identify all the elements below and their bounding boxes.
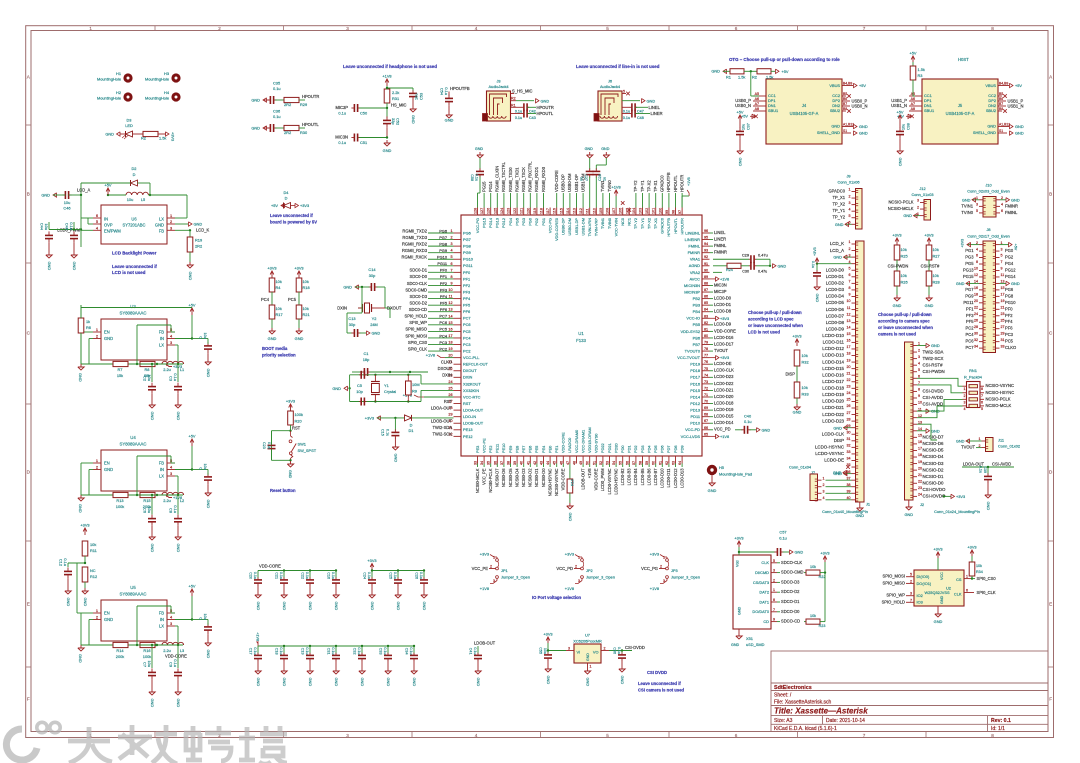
U1 pin 65 VCC-LVDS [702,435,710,437]
svg-text:+1V8: +1V8 [426,353,435,358]
svg-text:3: 3 [170,471,172,476]
svg-text:15: 15 [1001,286,1005,290]
svg-text:R18: R18 [303,285,310,290]
svg-text:PF0: PF0 [463,270,471,275]
svg-text:126: 126 [487,208,491,214]
svg-text:PD10: PD10 [690,421,701,426]
svg-text:67: 67 [704,419,708,423]
svg-text:SPIO_MISO: SPIO_MISO [882,580,905,585]
svg-text:SDC0-CD: SDC0-CD [409,307,427,312]
svg-text:GND: GND [104,617,113,622]
svg-text:80: 80 [704,334,708,338]
svg-text:PG8: PG8 [439,241,447,246]
svg-text:TP-Y1: TP-Y1 [640,218,645,229]
ground under R12 [84,588,86,591]
svg-text:PC5: PC5 [439,327,447,332]
svg-text:VDD-SYS2: VDD-SYS2 [681,329,700,334]
svg-text:0.1u: 0.1u [338,140,346,145]
svg-text:SPI0_CLK: SPI0_CLK [977,590,996,595]
U1 pin 107 VCC-TVIN [615,208,617,216]
svg-text:PF2: PF2 [1005,313,1013,318]
svg-text:22: 22 [974,306,978,310]
svg-text:DAT1: DAT1 [759,599,769,604]
svg-text:2R2: 2R2 [284,130,291,135]
U6 pins right [167,217,175,219]
resistor R24 [713,265,727,267]
U1 pin 61 PD6 [661,456,663,464]
svg-text:61: 61 [658,461,662,465]
svg-text:PD6: PD6 [660,445,665,453]
svg-text:GND: GND [155,223,164,228]
svg-text:SBU2: SBU2 [830,108,840,113]
U1 pin 118 PG1 [543,208,545,216]
svg-text:47: 47 [566,461,570,465]
svg-text:54: 54 [612,461,616,465]
U1 pin 42 PE5 [536,456,538,464]
svg-text:TVIN-VRP: TVIN-VRP [594,218,599,237]
svg-text:10k: 10k [901,273,907,278]
svg-text:B8: B8 [999,107,1003,111]
U1 pin 108 TVIN0 [609,208,611,216]
svg-text:R16: R16 [143,648,150,653]
crystal Y2 [358,307,363,309]
svg-text:H5: H5 [719,465,724,470]
svg-text:KiCad E.D.A. kicad (5.1.6)-1: KiCad E.D.A. kicad (5.1.6)-1 [774,726,837,732]
resistor R30 [275,127,284,129]
svg-text:HPOUTL: HPOUTL [302,122,319,127]
svg-text:LINEINR: LINEINR [685,237,701,242]
svg-text:PG9: PG9 [439,248,447,253]
svg-text:31: 31 [847,437,851,441]
svg-text:7: 7 [1001,260,1003,264]
svg-text:RGMII_TXCTRL: RGMII_TXCTRL [501,161,506,192]
svg-text:PD13: PD13 [690,408,700,413]
svg-text:125: 125 [493,208,497,214]
svg-text:HPOUTFB: HPOUTFB [666,218,671,237]
svg-text:GND: GND [66,598,71,607]
svg-text:24: 24 [847,391,851,395]
svg-text:VCC-TVIN: VCC-TVIN [613,218,618,237]
ground under C53 [412,106,414,109]
svg-text:2: 2 [96,334,98,339]
svg-text:5: 5 [918,368,920,372]
svg-text:100: 100 [658,208,662,214]
svg-text:6: 6 [1001,209,1003,213]
svg-text:Conn_02x03_Odd_Even: Conn_02x03_Odd_Even [967,189,1010,194]
U1 pin 34 VCC-PE [483,456,485,464]
power GND J10 pin2 [1000,199,1006,201]
svg-text:23: 23 [918,486,922,490]
svg-text:+3V3: +3V3 [565,552,574,557]
svg-text:NCSIO-PCLK: NCSIO-PCLK [986,396,1011,401]
capacitor C30 [750,262,752,270]
svg-text:PG5: PG5 [514,218,519,226]
svg-text:LCD0-D13: LCD0-D13 [679,468,684,488]
svg-text:1: 1 [590,665,592,669]
svg-text:J2: J2 [920,502,924,507]
svg-text:C: C [199,617,204,620]
svg-text:117: 117 [546,208,550,214]
svg-text:DXOUT: DXOUT [438,366,453,371]
svg-text:2.2k: 2.2k [392,90,399,95]
U1 pin 35 PE2 [490,456,492,464]
svg-text:SY8089AAAC: SY8089AAAC [120,592,147,597]
svg-text:19: 19 [847,358,851,362]
ground under C38 [899,148,901,151]
svg-text:C: C [199,336,204,339]
svg-text:PG12: PG12 [1005,267,1016,272]
svg-text:C25: C25 [389,572,393,579]
svg-text:R4: R4 [276,285,282,290]
svg-text:29: 29 [1001,331,1005,335]
svg-text:107: 107 [612,208,616,214]
svg-text:C3: C3 [169,376,174,381]
svg-text:+1V8: +1V8 [611,185,620,190]
svg-text:LCDO-HSYNC: LCDO-HSYNC [815,445,844,450]
svg-text:HPOUTR: HPOUTR [302,94,319,99]
svg-text:0.1u: 0.1u [279,647,283,654]
capacitor C19 [309,645,311,647]
svg-text:C50: C50 [360,111,368,116]
svg-text:1: 1 [96,458,98,463]
svg-text:TVIN1: TVIN1 [961,203,973,208]
svg-text:10k: 10k [276,306,282,311]
svg-text:7: 7 [849,280,851,284]
svg-text:HPOUTR: HPOUTR [679,218,684,235]
capacitor U4 input [204,476,212,478]
U5 pins [93,612,101,614]
svg-text:0.1u: 0.1u [338,111,346,116]
U1 pin 17 PC4 [454,337,462,339]
svg-text:USB4105-GF-A: USB4105-GF-A [946,111,975,116]
svg-text:NCSIO-D3: NCSIO-D3 [923,461,945,466]
svg-text:PG15: PG15 [481,181,486,192]
svg-text:23: 23 [847,385,851,389]
svg-text:PC6: PC6 [463,322,471,327]
svg-text:C51: C51 [360,140,367,145]
svg-text:Leave unconnected if headphone: Leave unconnected if headphone is not us… [343,64,437,69]
ground under C41 [477,668,479,671]
svg-text:H3: H3 [164,71,169,76]
svg-text:GND: GND [150,412,155,421]
svg-text:A1,B12: A1,B12 [999,123,1010,127]
svg-text:7: 7 [450,268,452,272]
U1 pin 22 DXOUT [454,370,462,372]
svg-text:GND: GND [585,147,594,151]
svg-text:NC: NC [90,568,96,573]
svg-text:2: 2 [218,26,221,31]
svg-text:3: 3 [849,201,851,205]
svg-text:USB0-DM: USB0-DM [567,218,572,236]
capacitor C42 [523,103,525,111]
svg-text:RGMII_TXD2: RGMII_TXD2 [402,228,427,233]
svg-text:5: 5 [96,219,98,224]
U1 pin 101 TP-X1 [655,208,657,216]
svg-text:PG1: PG1 [541,218,546,226]
svg-text:D: D [285,196,288,201]
svg-text:GND: GND [586,678,591,687]
svg-text:72: 72 [704,386,708,390]
U1 pin 41 PE6 [529,456,531,464]
svg-text:PE1: PE1 [554,446,559,453]
svg-text:GND: GND [150,544,155,553]
power +1V8 top pin107 [615,196,617,208]
svg-text:PC3: PC3 [439,340,447,345]
svg-text:PC5: PC5 [1005,339,1014,344]
svg-text:HPOUTL: HPOUTL [537,111,554,116]
svg-text:LCD0-D12: LCD0-D12 [673,468,678,488]
svg-text:C38: C38 [907,123,911,130]
svg-text:81: 81 [704,327,708,331]
svg-text:C55: C55 [539,647,543,654]
svg-text:VDD-CORE: VDD-CORE [594,468,599,490]
svg-text:HPOUTR: HPOUTR [679,175,684,192]
mounting hole H3 [171,73,180,82]
svg-text:36: 36 [493,461,497,465]
U1 pin 15 PC6 [454,324,462,326]
svg-text:50: 50 [586,461,590,465]
inductor U4 [162,492,184,495]
ground csi pullup 0 [896,295,898,298]
svg-text:93: 93 [704,249,708,253]
svg-text:+3V3: +3V3 [967,545,976,550]
svg-text:94: 94 [704,242,708,246]
svg-text:A7: A7 [911,102,915,106]
svg-text:100k: 100k [295,412,303,417]
svg-text:USB0-DP: USB0-DP [561,218,566,235]
J1 GND pins [844,256,852,258]
resistor R12 [82,567,88,582]
wire Y1 frame [349,375,351,402]
svg-text:1: 1 [96,327,98,332]
capacitor C29 [713,258,749,260]
power +3V3 U7 in [547,637,549,643]
wire U3 IN rail [175,338,192,340]
capacitor C54 [448,92,450,97]
title block [771,651,1048,732]
svg-text:GND: GND [78,654,83,663]
svg-text:GND: GND [194,222,203,227]
svg-text:GND: GND [268,336,277,341]
J3 pins and nets [511,93,515,95]
svg-text:SBU1: SBU1 [768,108,778,113]
U1 pin 49 VCC-DRAM1 [582,456,584,464]
svg-text:LCDO-D17: LCDO-D17 [822,379,844,384]
svg-text:PG3: PG3 [521,218,526,226]
svg-text:PD0: PD0 [620,445,625,453]
resistor boot upper 0 [269,278,275,292]
svg-text:+3V3: +3V3 [820,551,829,556]
U1 pin 3 PG8 [454,245,462,247]
svg-text:U5: U5 [130,585,136,590]
svg-text:PE3: PE3 [475,446,480,453]
svg-text:PG2: PG2 [1005,255,1014,260]
power +3V3 J8 pin2 [967,244,979,246]
svg-text:PC4: PC4 [463,335,471,340]
mounting hole H2 [123,92,132,101]
ground under C26 [423,592,425,595]
svg-text:W25Q32JVSS: W25Q32JVSS [924,590,949,595]
svg-text:25: 25 [448,386,452,390]
svg-text:PG3: PG3 [965,255,974,260]
svg-text:LCD0-D18: LCD0-D18 [714,400,734,405]
svg-text:GND: GND [833,425,842,430]
U1 pin 50 VDD1B-DRAM [589,456,591,464]
svg-text:TP-Y2: TP-Y2 [633,218,638,229]
svg-text:GND: GND [903,213,912,218]
svg-text:Conn_01x02: Conn_01x02 [998,444,1020,449]
svg-text:89: 89 [704,275,708,279]
svg-text:PF5: PF5 [440,300,447,305]
svg-text:1: 1 [96,608,98,613]
svg-text:R6: R6 [86,325,91,330]
svg-text:Conn_01x24_MountingPin: Conn_01x24_MountingPin [934,509,980,514]
svg-text:39: 39 [513,461,517,465]
svg-text:PF3: PF3 [463,289,470,294]
U3 pins [93,331,101,333]
svg-text:0.1u: 0.1u [744,419,752,424]
svg-text:DI(IO0): DI(IO0) [917,574,930,579]
svg-text:S1: S1 [843,129,847,133]
svg-text:SPI0_MOSI: SPI0_MOSI [405,333,427,338]
capacitor C23 [268,444,276,446]
svg-text:JP2: JP2 [586,568,593,573]
svg-text:PG10: PG10 [1005,300,1016,305]
J4 GND pins [842,126,853,128]
svg-text:EN: EN [104,330,110,335]
svg-text:25: 25 [1001,318,1005,322]
svg-text:PG7: PG7 [965,287,974,292]
svg-text:Jumper_3_Open: Jumper_3_Open [501,575,530,580]
svg-text:R33: R33 [802,392,809,397]
svg-text:PG13: PG13 [963,267,974,272]
svg-text:NCSI0-D1: NCSI0-D1 [534,468,539,487]
svg-text:NCSIO-D1: NCSIO-D1 [923,474,945,479]
svg-text:C8: C8 [169,508,174,513]
svg-text:B7: B7 [843,102,847,106]
svg-text:GND: GND [956,281,965,286]
svg-text:34: 34 [847,457,851,461]
svg-text:H0ST: H0ST [958,57,969,62]
svg-text:LCD0-B3: LCD0-B3 [627,468,632,486]
svg-text:71: 71 [704,393,708,397]
svg-text:5: 5 [849,266,851,270]
svg-text:X51: X51 [746,636,753,641]
svg-text:VDD-CORE: VDD-CORE [714,328,736,333]
connector X51 uSD_SMD [733,555,771,629]
svg-text:C52: C52 [396,118,401,125]
svg-text:24M: 24M [370,322,378,327]
ground cap input U5 [207,640,209,643]
resistor U3 divider 2 [140,361,155,366]
svg-text:FB: FB [159,330,165,335]
svg-text:LCD0-D16: LCD0-D16 [714,335,734,340]
ground under C20 [257,592,259,595]
svg-text:0.1u: 0.1u [331,572,335,579]
capacitor C17 [257,646,259,654]
svg-text:LCD0-B6: LCD0-B6 [646,468,651,486]
svg-text:CLK: CLK [761,560,769,565]
svg-text:PC4: PC4 [966,332,975,337]
svg-text:6: 6 [976,254,978,258]
svg-text:C18: C18 [275,648,279,655]
svg-text:1.5k: 1.5k [766,75,773,80]
svg-text:LCDO-DE: LCDO-DE [824,458,844,463]
svg-text:PG4: PG4 [1005,261,1014,266]
ground under SW1 [289,459,291,461]
svg-text:6: 6 [981,400,983,404]
U1 pin 96 LINEINL [702,232,710,234]
svg-text:RGMII_RXD0: RGMII_RXD0 [541,166,546,192]
U1 pin 76 PD19 [702,363,710,365]
svg-text:LCD0-D10: LCD0-D10 [660,468,665,488]
svg-text:GND: GND [282,602,287,611]
svg-text:9: 9 [450,281,452,285]
svg-text:C24: C24 [363,572,367,579]
svg-text:+1V8: +1V8 [382,74,391,79]
svg-text:PD14: PD14 [690,394,701,399]
svg-text:LDOB-OUT: LDOB-OUT [463,421,484,426]
svg-text:115: 115 [559,208,563,214]
U1 pin 105 NC1 [628,208,630,216]
svg-text:2: 2 [910,579,912,583]
svg-text:0.1u: 0.1u [409,647,413,654]
ground under C24 [371,592,373,595]
svg-text:17: 17 [448,334,452,338]
svg-text:2.2u: 2.2u [163,648,171,653]
svg-text:4: 4 [823,496,825,500]
svg-text:USB1-DP: USB1-DP [574,174,579,192]
svg-text:MountingHole: MountingHole [145,77,169,82]
svg-text:PD8: PD8 [673,445,678,453]
svg-text:+5V: +5V [1015,83,1022,88]
svg-text:LINEINL: LINEINL [685,230,701,235]
svg-text:R28: R28 [933,280,940,285]
U1 pin 36 PE11 [496,456,498,464]
svg-text:RGMII_TXD3: RGMII_TXD3 [402,235,427,240]
svg-text:C9: C9 [169,662,174,667]
svg-text:USB4105-GF-A: USB4105-GF-A [790,111,819,116]
svg-text:MIC3N: MIC3N [714,282,727,287]
svg-text:GND: GND [893,303,902,308]
svg-text:+3V3: +3V3 [480,552,489,557]
capacitor C26 [423,569,425,571]
svg-text:MountingHole_Pad: MountingHole_Pad [719,472,752,477]
svg-text:10u: 10u [742,124,746,130]
svg-text:3: 3 [910,592,912,596]
svg-text:0.1u: 0.1u [305,572,309,579]
svg-text:NCSIO-MCLK: NCSIO-MCLK [986,403,1012,408]
svg-text:CSI camera is not used: CSI camera is not used [638,688,685,693]
U1 pin 88 MICIN3N [702,284,710,286]
svg-text:R1: R1 [726,75,731,80]
svg-text:B: B [1049,192,1052,197]
svg-text:Jumper_3_Open: Jumper_3_Open [671,575,700,580]
svg-text:GPADC0: GPADC0 [660,217,665,234]
U1 pin 55 PD0 [622,456,624,464]
capacitor C27 [589,152,591,155]
svg-text:CSI DVDD: CSI DVDD [647,670,667,675]
svg-text:NCSIO-D6: NCSIO-D6 [923,441,945,446]
J2 pin24 +3V3 [944,495,951,497]
svg-text:J5: J5 [958,103,963,108]
svg-text:+1V8: +1V8 [256,632,260,641]
svg-text:30: 30 [847,430,851,434]
svg-text:10k: 10k [276,279,282,284]
svg-text:2R2: 2R2 [195,244,202,249]
svg-text:GND: GND [940,595,944,604]
svg-text:59: 59 [645,461,649,465]
